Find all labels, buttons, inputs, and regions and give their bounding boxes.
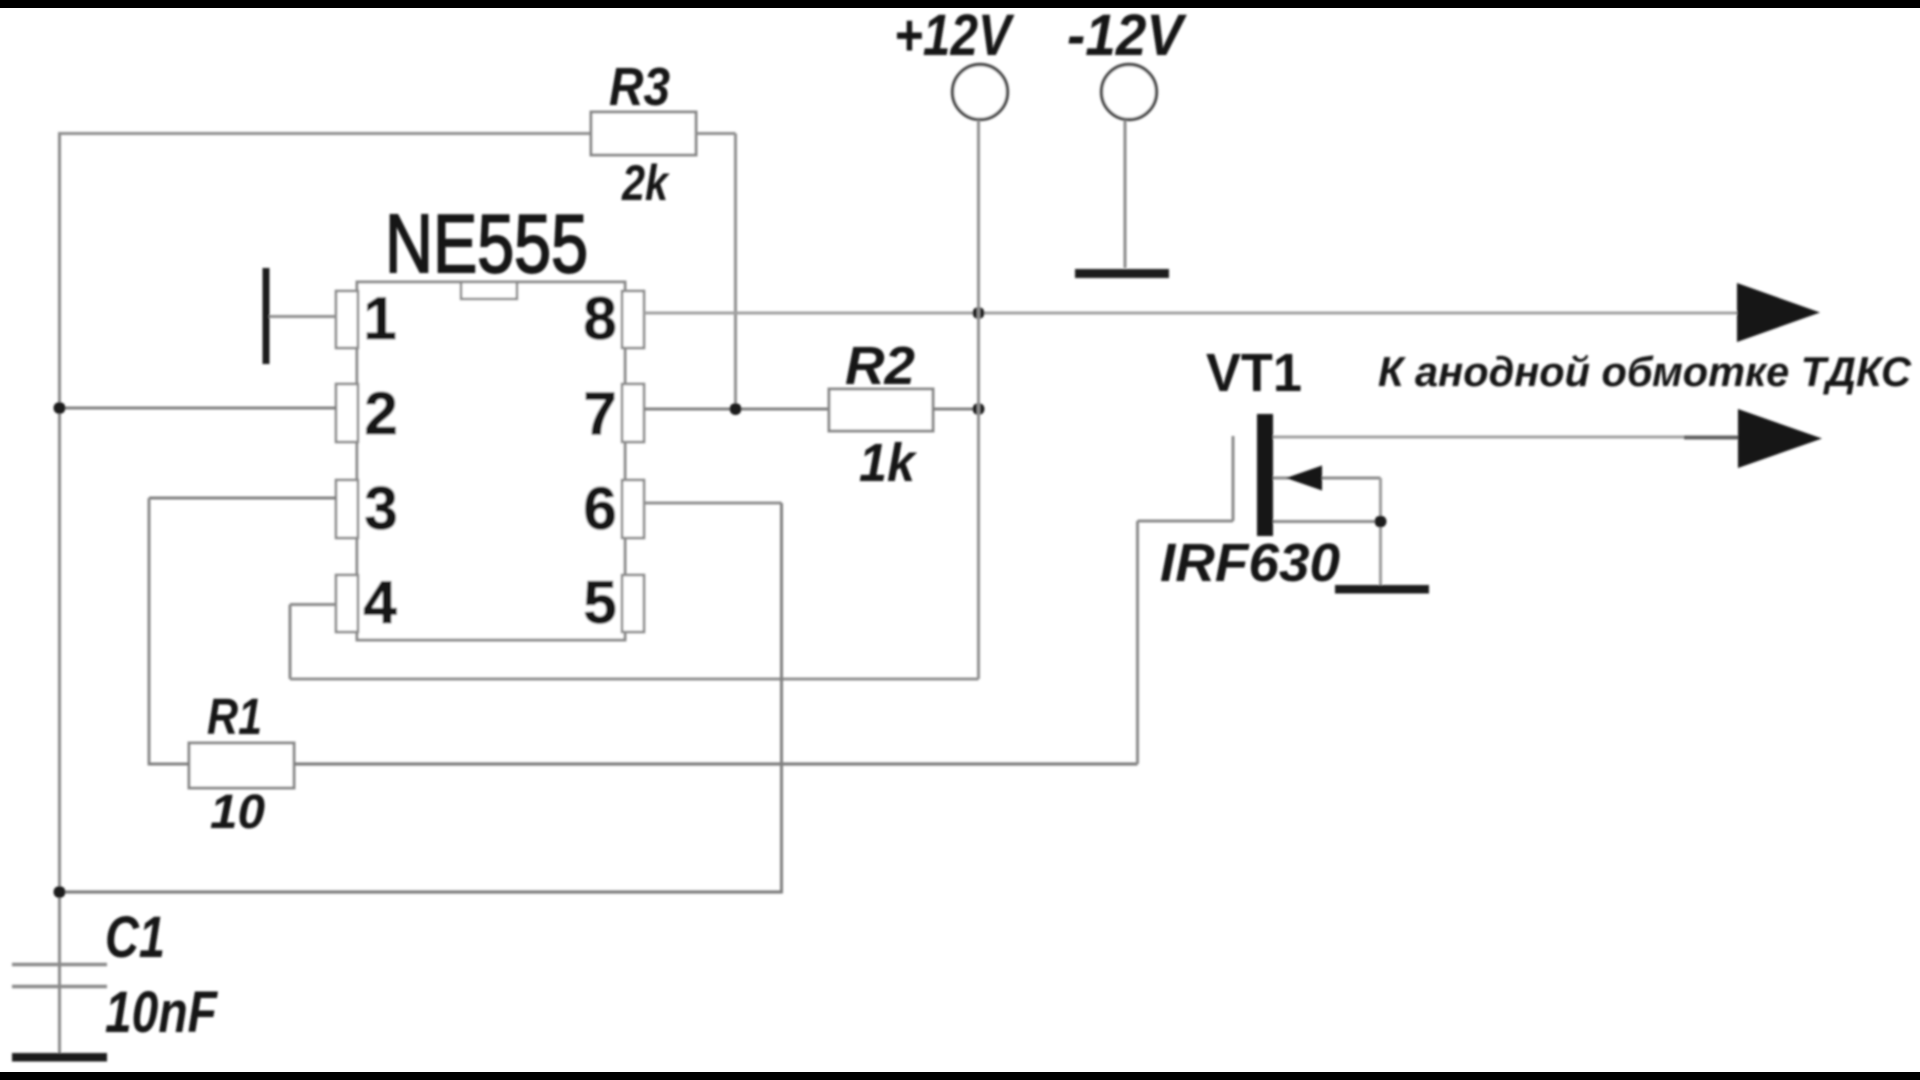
pin 2 box <box>336 384 358 442</box>
letterbox bars <box>0 0 1920 8</box>
wire: pin 3 vertical down to R1 <box>148 498 151 766</box>
wire: -12V vertical <box>1124 120 1127 268</box>
svg-text:3: 3 <box>364 475 397 542</box>
node: junction pin2 / net A <box>54 402 66 414</box>
node: junction source / body <box>1375 516 1387 528</box>
wire: C1 bottom lead <box>58 988 61 1054</box>
svg-text:5: 5 <box>583 569 616 636</box>
resistor R1 <box>189 743 294 788</box>
wire: pin 4 horizontal to +12V rail <box>290 678 979 681</box>
wire: pin 6 horizontal <box>644 502 782 505</box>
capacitor C1 top plate <box>12 963 107 966</box>
wire: net A vertical (C1/pin2 bus) <box>58 134 61 1055</box>
resistor R3 <box>591 112 696 155</box>
op-amp timer U1 NE555 body <box>357 282 625 640</box>
svg-text:1k: 1k <box>859 433 918 493</box>
svg-text:7: 7 <box>583 380 616 447</box>
IC top notch <box>461 282 517 299</box>
wire: R2 right to +12V rail <box>933 408 979 411</box>
ground bar under VT1 source <box>1335 585 1429 594</box>
pin 7 box <box>622 384 644 442</box>
node: junction +12V rail / pin 8 wire <box>973 307 985 319</box>
svg-text:10: 10 <box>210 786 265 839</box>
svg-text:+12V: +12V <box>894 3 1015 68</box>
power -12V terminal circle <box>1102 65 1157 120</box>
svg-text:1: 1 <box>363 285 396 352</box>
reset stub bar at pin 1 <box>263 268 270 364</box>
wire: R1 right to gate riser <box>294 762 1138 765</box>
wire: pin 8 horizontal to output arrow <box>644 312 1740 315</box>
svg-text:2k: 2k <box>621 155 670 211</box>
wire: R1 left stub <box>149 763 189 766</box>
svg-text:6: 6 <box>583 475 616 542</box>
ground bar under -12V <box>1075 269 1169 278</box>
resistor R2 <box>829 389 933 431</box>
wire: pin 2 horizontal <box>60 407 338 410</box>
node: junction pin7 / R3 leg <box>730 403 742 415</box>
svg-text:4: 4 <box>363 569 397 636</box>
wire: source horizontal <box>1273 520 1381 523</box>
svg-text:IRF630: IRF630 <box>1160 533 1340 593</box>
wire: body/source vertical to ground <box>1379 478 1382 587</box>
wire: gate riser vertical <box>1136 521 1139 764</box>
svg-text:R2: R2 <box>845 336 915 396</box>
wire: drain horizontal to output arrow <box>1273 436 1742 439</box>
wire: R3 right vertical down to pin7 net <box>734 134 737 410</box>
wire: R3 right to vertical <box>696 132 736 135</box>
svg-text:2: 2 <box>364 380 397 447</box>
svg-text:R3: R3 <box>609 57 670 117</box>
wire: drain overlap segment near arrow <box>1684 436 1740 440</box>
wire: pin 3 horizontal <box>149 497 337 500</box>
transistor VT1 gate electrode <box>1232 436 1235 521</box>
output arrow 1 (top, +12V feed) <box>1737 283 1820 342</box>
node: junction R2 / +12V rail <box>973 403 985 415</box>
wire: +12V vertical rail <box>977 120 980 679</box>
wire: pin 1 stub <box>269 315 337 318</box>
svg-text:10nF: 10nF <box>105 980 218 1045</box>
svg-text:C1: C1 <box>105 905 165 970</box>
svg-text:NE555: NE555 <box>385 197 588 290</box>
wire: pin 4 vertical <box>289 605 292 680</box>
wire: pin 4 stub <box>290 603 337 606</box>
wire: pin 7 horizontal to R2 <box>644 408 829 411</box>
capacitor C1 bottom plate <box>12 985 107 988</box>
pin 1 box <box>336 291 358 348</box>
wire: bottom horizontal (pin6 to C1) <box>60 890 782 893</box>
wire: gate horizontal <box>1138 520 1234 523</box>
svg-text:К анодной обмотке ТДКС: К анодной обмотке ТДКС <box>1378 348 1912 395</box>
svg-text:R1: R1 <box>207 688 262 745</box>
wire: body arrow line <box>1273 477 1381 480</box>
pin 5 box <box>622 575 644 632</box>
svg-text:8: 8 <box>583 285 616 352</box>
pin 4 box <box>336 575 358 632</box>
wire: pin 6 vertical down <box>780 503 783 894</box>
power +12V terminal circle <box>953 65 1008 120</box>
node: junction net A / bottom wire <box>54 886 66 898</box>
svg-text:VT1: VT1 <box>1206 343 1302 403</box>
pin 3 box <box>336 480 358 538</box>
wire: top horizontal to R3 left <box>58 132 591 135</box>
transistor VT1 body arrowhead <box>1286 466 1322 491</box>
ground bar under C1 <box>12 1053 107 1062</box>
pin 8 box <box>622 291 644 348</box>
output arrow 2 (drain to TDKS winding) <box>1738 409 1822 468</box>
transistor VT1 channel bar <box>1257 414 1273 536</box>
pin 6 box <box>622 480 644 538</box>
svg-text:-12V: -12V <box>1067 3 1187 68</box>
